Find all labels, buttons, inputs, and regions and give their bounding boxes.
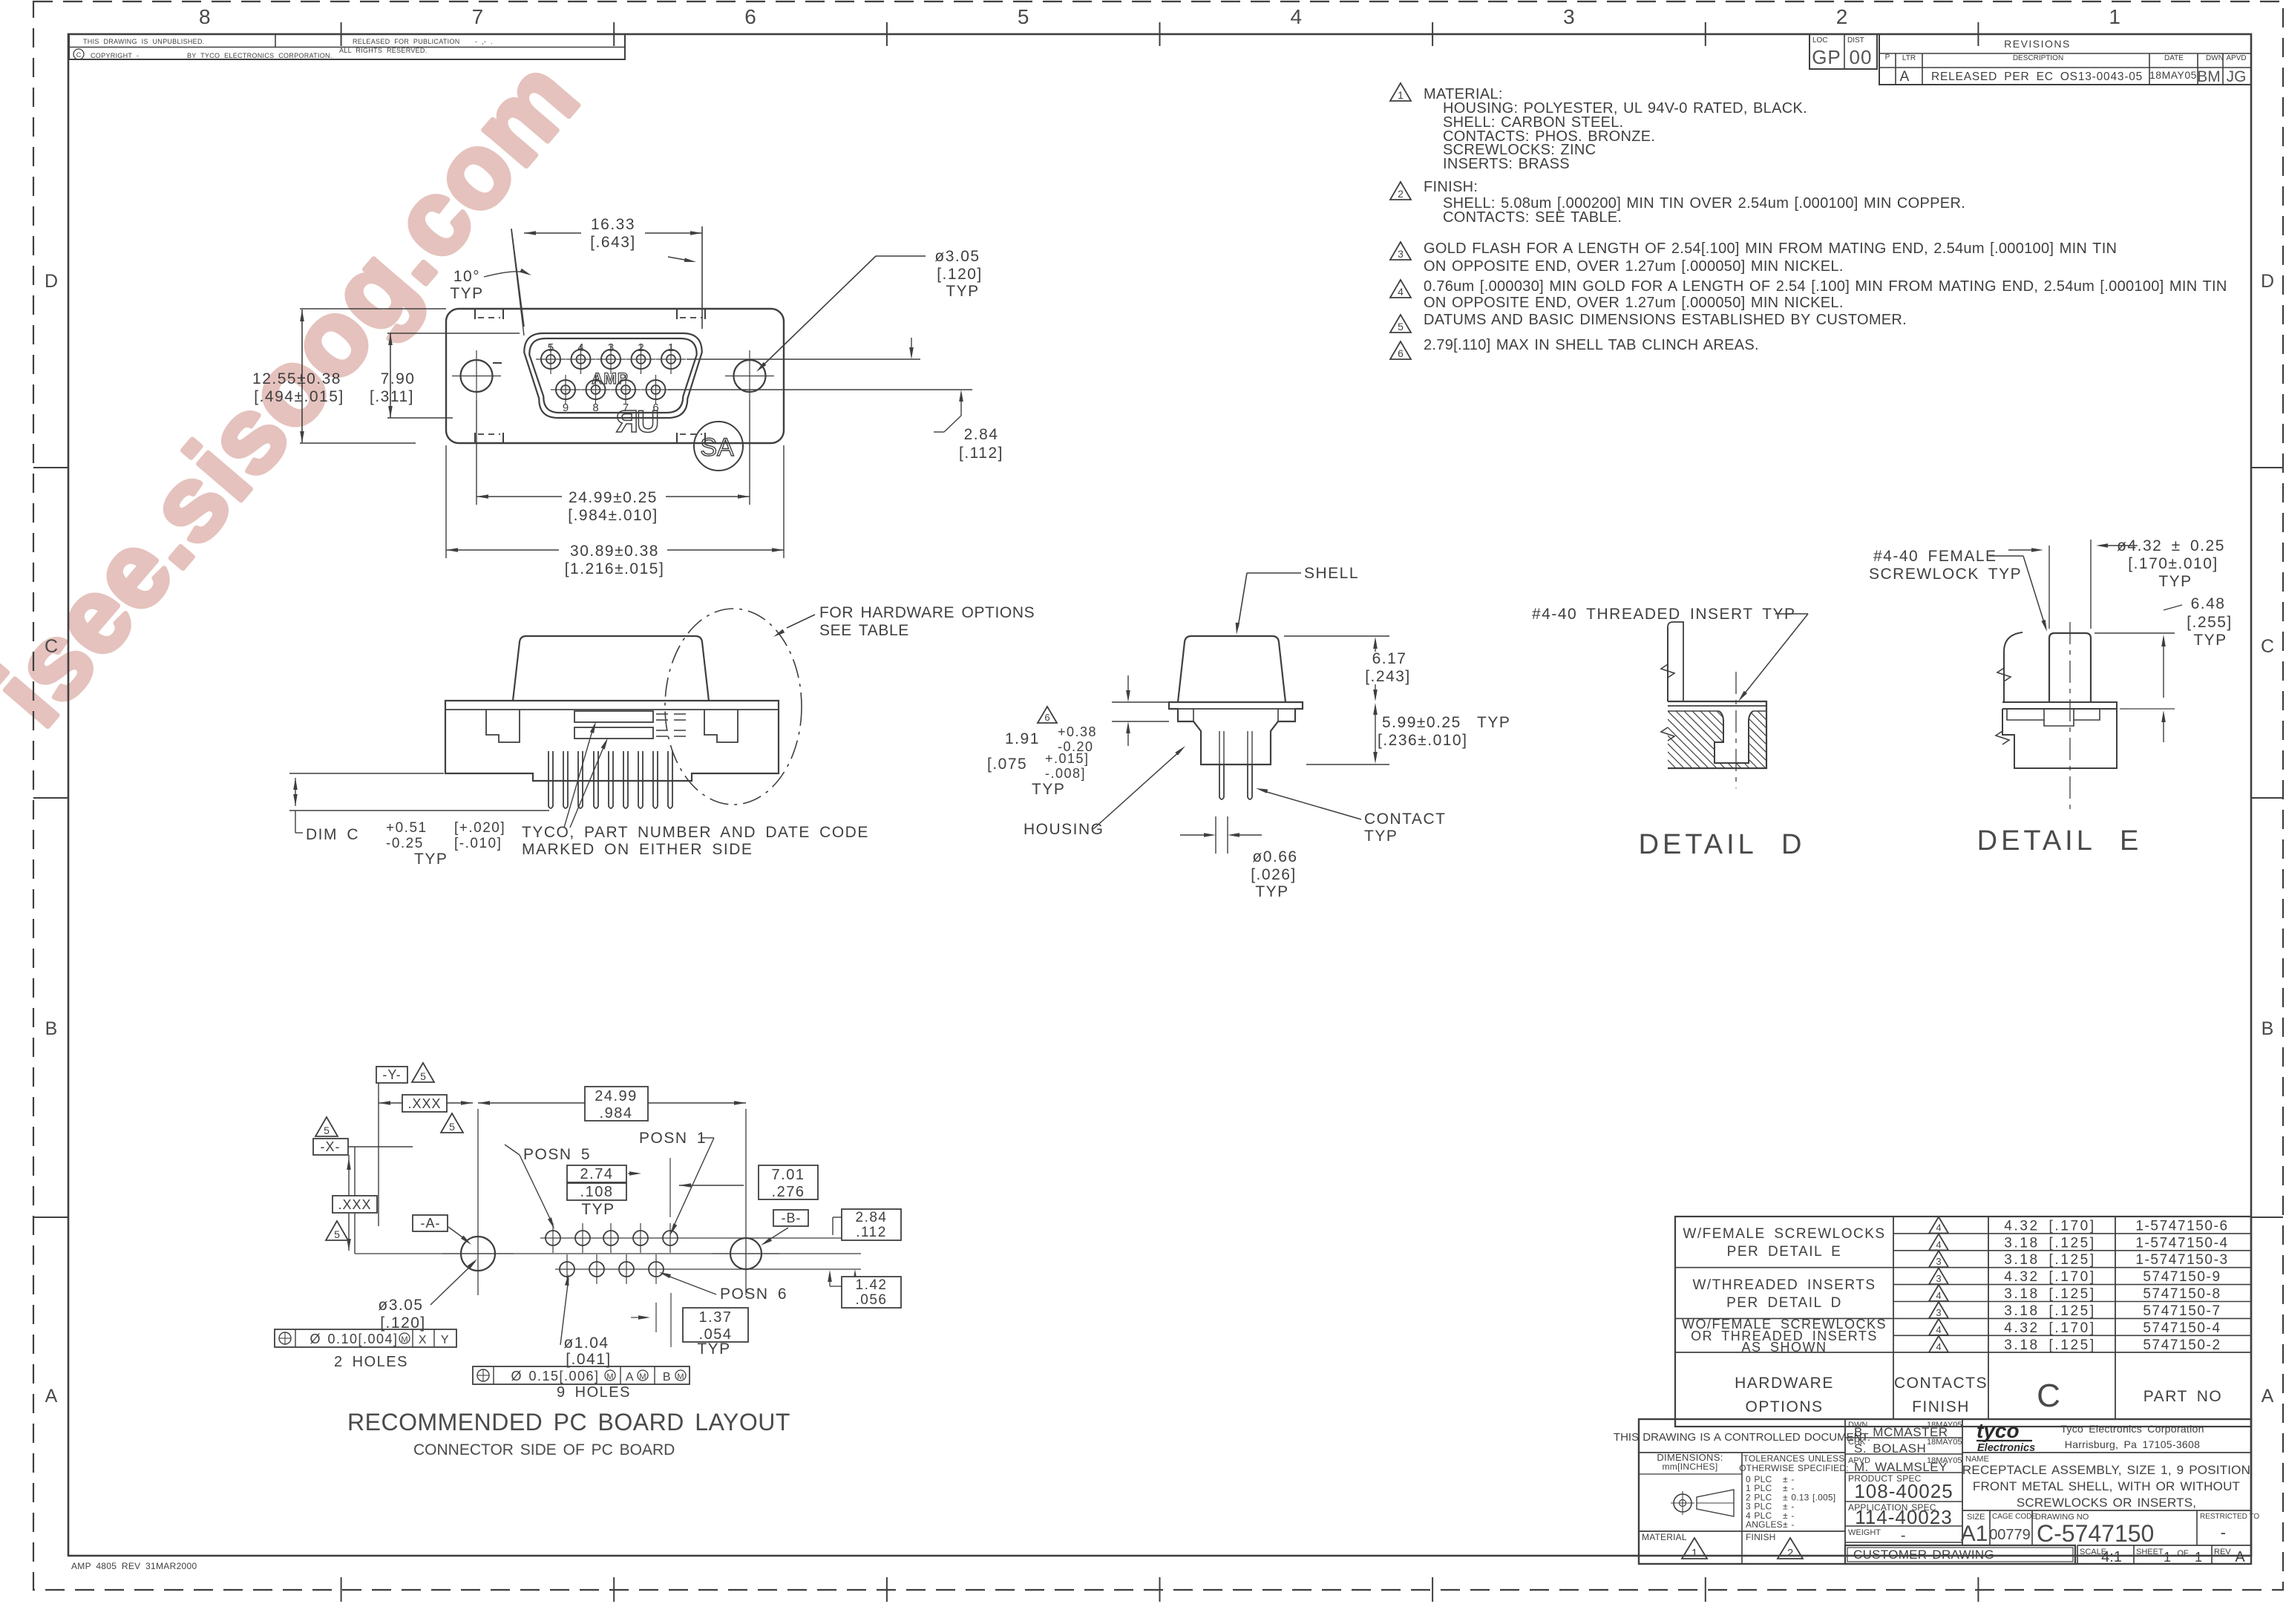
side view flange <box>445 701 779 781</box>
pcb dim2.74 box <box>567 1165 626 1182</box>
svg-text:5747150-2: 5747150-2 <box>2143 1337 2221 1353</box>
svg-text:2.84: 2.84 <box>964 426 999 443</box>
dim 1.91 ext top <box>1112 701 1169 703</box>
side marking plate 2 <box>574 727 653 739</box>
zone tick bottom 4 <box>1159 1577 1161 1602</box>
pcb dim1.37 box <box>683 1308 748 1342</box>
clinch tab bottom <box>676 433 678 443</box>
dim 12.55 ext bottom <box>300 442 416 444</box>
svg-text:ø3.05: ø3.05 <box>934 248 980 265</box>
svg-text:3: 3 <box>1936 1273 1941 1284</box>
pcb dim24.99 line <box>478 1102 746 1104</box>
dim 7.90 ext bottom <box>387 417 453 419</box>
svg-text:18MAY05: 18MAY05 <box>1927 1438 1962 1447</box>
svg-text:POSN 6: POSN 6 <box>720 1286 787 1303</box>
dim 2.84fv elbow <box>944 416 961 432</box>
svg-text:TYP: TYP <box>1477 714 1510 731</box>
svg-text:RESTRICTED TO: RESTRICTED TO <box>2200 1513 2259 1521</box>
zone tick bottom 1 <box>341 1577 342 1602</box>
svg-text:BY TYCO ELECTRONICS CORPORATIO: BY TYCO ELECTRONICS CORPORATION. <box>187 52 333 59</box>
svg-text:-X-: -X- <box>321 1139 341 1154</box>
svg-text:2.74: 2.74 <box>580 1166 614 1182</box>
svg-text:tyco: tyco <box>1976 1419 2020 1442</box>
clinch tab top <box>676 309 678 319</box>
pcb POSN5 leader <box>505 1145 520 1155</box>
pcb top row holes <box>546 1231 560 1245</box>
svg-text:-: - <box>1901 1528 1907 1544</box>
svg-text:8: 8 <box>199 5 211 28</box>
hw tri row1 <box>1929 1217 1948 1234</box>
pcb dimXXX top box <box>402 1095 447 1112</box>
svg-text:Ø 0.15[.006]: Ø 0.15[.006] <box>511 1369 599 1384</box>
hw row line 2 <box>1893 1250 2251 1251</box>
hw tri row3 <box>1929 1251 1948 1267</box>
svg-text:CAGE CODE: CAGE CODE <box>1992 1513 2037 1521</box>
svg-text:[.494±.015]: [.494±.015] <box>254 388 344 405</box>
detailE label leader <box>1989 555 2023 557</box>
contact 5 <box>541 350 560 369</box>
svg-text:M: M <box>401 1335 407 1344</box>
dim 24.99 line <box>476 496 750 497</box>
header table box <box>69 34 625 59</box>
svg-text:SCREWLOCK TYP: SCREWLOCK TYP <box>1869 566 2022 583</box>
svg-text:1.37: 1.37 <box>699 1309 733 1326</box>
zone tick left <box>33 797 68 799</box>
svg-text:SA: SA <box>700 433 734 462</box>
detailE dim arrowr <box>2102 545 2138 546</box>
svg-text:.XXX: .XXX <box>407 1096 441 1111</box>
svg-text:TYP: TYP <box>414 851 448 868</box>
CSA mark <box>694 422 743 471</box>
svg-text:FINISH:: FINISH: <box>1424 179 1478 195</box>
svg-text:Harrisburg, Pa 17105-3608: Harrisburg, Pa 17105-3608 <box>2065 1438 2200 1450</box>
side marking dash 1 <box>656 713 692 715</box>
svg-text:A: A <box>2262 1386 2274 1407</box>
detailE dim arrowl <box>2008 549 2037 551</box>
pcb dim2.84 elbow <box>833 1217 842 1218</box>
side marking plate 1 <box>574 711 653 722</box>
dimC ext bottom <box>289 810 549 811</box>
clinch tab bottom <box>474 433 476 443</box>
zone tick top 4 <box>1159 22 1161 46</box>
svg-text:PER DETAIL D: PER DETAIL D <box>1726 1295 1842 1311</box>
note6 triangle sv <box>1038 707 1057 723</box>
svg-text:5: 5 <box>1018 5 1029 28</box>
svg-text:5747150-4: 5747150-4 <box>2143 1320 2221 1336</box>
tb mid hline <box>1845 1525 1962 1527</box>
dim 24.99 ext right <box>749 401 750 505</box>
dim 1.91 arrows <box>1127 675 1129 698</box>
revisions bottom <box>1879 84 2251 85</box>
svg-text:1-5747150-6: 1-5747150-6 <box>2135 1219 2228 1234</box>
zone tick top 3 <box>886 22 888 46</box>
svg-text:7.01: 7.01 <box>772 1167 805 1183</box>
zone tick bottom 2 <box>613 1577 615 1602</box>
front small tick <box>493 362 502 364</box>
HOUSING leader <box>1093 750 1182 829</box>
svg-text:TYP: TYP <box>697 1340 730 1358</box>
svg-text:C: C <box>2037 1378 2060 1414</box>
svg-text:ø4.32 ± 0.25: ø4.32 ± 0.25 <box>2117 537 2225 554</box>
svg-text:W/FEMALE SCREWLOCKS: W/FEMALE SCREWLOCKS <box>1683 1226 1885 1242</box>
svg-text:[.112]: [.112] <box>959 445 1003 462</box>
svg-text:1: 1 <box>2109 5 2120 28</box>
hw row line 6 <box>1675 1317 2251 1319</box>
svg-text:18MAY05: 18MAY05 <box>1927 1456 1962 1465</box>
svg-text:OF: OF <box>2177 1549 2189 1558</box>
zone tick bottom 3 <box>886 1577 888 1602</box>
pcb dim2.74 box2 <box>567 1183 626 1200</box>
svg-text:Y: Y <box>441 1334 450 1346</box>
dimC elbow <box>295 811 296 833</box>
svg-text:DIM C: DIM C <box>306 826 359 843</box>
pcb POSN6 leader <box>662 1274 716 1294</box>
header copyright symbol <box>73 49 84 59</box>
front D cutout inner <box>529 338 696 413</box>
svg-text:M: M <box>606 1372 613 1381</box>
svg-text:00779: 00779 <box>1989 1527 2031 1543</box>
svg-text:1.91: 1.91 <box>1005 730 1040 747</box>
revisions vline <box>1895 53 1896 85</box>
pcb bottom row holes <box>560 1262 574 1277</box>
note triangle 1 <box>1390 83 1411 101</box>
tb mid hline <box>1845 1437 1962 1438</box>
hw row line 4 <box>1893 1284 2251 1286</box>
tb hline size <box>1962 1510 2251 1511</box>
pcb dim1.42 box <box>842 1277 901 1308</box>
zone tick top 7 <box>1977 22 1979 46</box>
svg-text:4: 4 <box>1398 286 1404 298</box>
front view shell outline <box>446 309 784 443</box>
svg-text:2: 2 <box>1787 1547 1793 1559</box>
tb material triangle <box>1682 1538 1707 1559</box>
svg-text:5747150-9: 5747150-9 <box>2143 1269 2221 1285</box>
hw tri row8 <box>1929 1336 1948 1352</box>
mounting hole right <box>734 360 766 392</box>
dim 12.55 line <box>301 310 303 443</box>
dim 12.55 ext top <box>300 308 446 310</box>
svg-text:INSERTS: BRASS: INSERTS: BRASS <box>1443 156 1570 172</box>
zone tick top 1 <box>341 22 342 46</box>
dim dia3.05 leader <box>876 255 926 257</box>
svg-text:M: M <box>639 1372 646 1381</box>
pcb dimXXX top line <box>379 1102 473 1104</box>
contact 9 <box>556 380 575 399</box>
tb size vlines <box>1989 1510 1991 1545</box>
svg-text:-B-: -B- <box>782 1211 802 1225</box>
dim 5.99 ext <box>1306 764 1389 765</box>
dim 5.99 line <box>1375 711 1376 756</box>
contact 3 <box>601 350 620 369</box>
svg-text:1: 1 <box>1691 1547 1697 1559</box>
hw tri row6 <box>1929 1302 1948 1318</box>
svg-text:W/THREADED INSERTS: W/THREADED INSERTS <box>1692 1277 1876 1293</box>
hw table outline <box>1675 1217 2251 1427</box>
front D cutout outer <box>524 333 701 418</box>
detailD centerline <box>1735 672 1737 788</box>
revisions hline1 <box>1879 53 2251 54</box>
tb customer drawing inner <box>1847 1548 2073 1562</box>
zone tick right <box>2251 797 2283 799</box>
svg-text:B: B <box>2262 1018 2274 1039</box>
dim 7.90 line <box>390 333 391 418</box>
svg-text:A: A <box>1900 69 1910 85</box>
hw row line 5 <box>1893 1301 2251 1303</box>
svg-text:24.99: 24.99 <box>595 1088 638 1104</box>
svg-text:3.18 [.125]: 3.18 [.125] <box>2004 1286 2095 1302</box>
svg-text:ø1.04: ø1.04 <box>563 1335 609 1352</box>
svg-text:00: 00 <box>1850 46 1873 68</box>
svg-text:[.984±.010]: [.984±.010] <box>568 507 658 524</box>
loc dist box <box>1810 34 1877 69</box>
svg-text:[.041]: [.041] <box>566 1351 612 1368</box>
svg-text:M: M <box>677 1372 684 1381</box>
svg-text:TYP: TYP <box>1032 781 1065 798</box>
svg-text:1-5747150-4: 1-5747150-4 <box>2135 1235 2228 1251</box>
pcb datumB leader <box>766 1228 788 1242</box>
detailE breaks <box>1997 668 2011 681</box>
svg-text:ø3.05: ø3.05 <box>378 1297 423 1314</box>
svg-text:3.18 [.125]: 3.18 [.125] <box>2004 1235 2095 1251</box>
note triangle 2 <box>1390 182 1411 200</box>
svg-text:1: 1 <box>1398 89 1404 101</box>
svg-text:ø0.66: ø0.66 <box>1252 848 1297 865</box>
svg-text:4: 4 <box>577 341 583 354</box>
svg-text:DETAIL E: DETAIL E <box>1977 825 2143 857</box>
svg-text:OPTIONS: OPTIONS <box>1745 1398 1823 1415</box>
zone tick left <box>33 467 68 468</box>
svg-text:4.32 [.170]: 4.32 [.170] <box>2004 1219 2095 1234</box>
svg-text:7.90: 7.90 <box>381 370 416 387</box>
svg-text:3: 3 <box>1563 5 1575 28</box>
svg-text:mm[INCHES]: mm[INCHES] <box>1663 1461 1718 1472</box>
side pins <box>548 751 553 808</box>
tb finish triangle <box>1778 1538 1803 1559</box>
svg-text:B: B <box>663 1371 672 1384</box>
contact 8 <box>586 380 606 399</box>
svg-text:DETAIL D: DETAIL D <box>1639 829 1806 860</box>
tb hline dims <box>1639 1473 1742 1475</box>
svg-text:FRONT METAL SHELL, WITH OR WIT: FRONT METAL SHELL, WITH OR WITHOUT <box>1973 1479 2240 1493</box>
detailE flange <box>2002 632 2117 709</box>
dim 6.17 ext <box>1284 635 1389 637</box>
svg-text:C: C <box>45 636 58 657</box>
svg-text:FINISH: FINISH <box>1912 1398 1970 1415</box>
clinch tab top <box>474 309 476 319</box>
svg-text:OTHERWISE SPECIFIED:: OTHERWISE SPECIFIED: <box>1739 1463 1848 1473</box>
pcb tri5 b <box>441 1113 463 1133</box>
tb customer drawing outer <box>1845 1545 2075 1564</box>
pcb datumA leader <box>448 1227 468 1241</box>
svg-text:AMP: AMP <box>592 370 629 387</box>
hw tri row2 <box>1929 1234 1948 1250</box>
svg-text:C: C <box>76 51 82 59</box>
svg-text:RELEASED PER EC OS13-0043-05: RELEASED PER EC OS13-0043-05 <box>1931 71 2143 83</box>
dim 2.84fv ext2 <box>668 389 972 390</box>
contact 7 <box>616 380 635 399</box>
svg-text:16.33: 16.33 <box>591 216 635 233</box>
svg-text:5747150-7: 5747150-7 <box>2143 1303 2221 1319</box>
svg-text:TYCO, PART NUMBER AND DATE COD: TYCO, PART NUMBER AND DATE CODE <box>522 824 869 841</box>
dim dia0.66 ticks <box>1215 816 1216 854</box>
svg-text:TYP: TYP <box>946 283 979 300</box>
slant construction line <box>511 230 524 335</box>
svg-text:2: 2 <box>1836 5 1848 28</box>
detailD break1 <box>1661 664 1674 678</box>
pcb datumA box <box>413 1215 448 1231</box>
svg-text:[.311]: [.311] <box>370 388 414 405</box>
svg-text:FOR HARDWARE OPTIONS: FOR HARDWARE OPTIONS <box>819 604 1035 621</box>
svg-text:1: 1 <box>668 341 674 354</box>
svg-text:FINISH: FINISH <box>1746 1532 1776 1542</box>
svg-text:5: 5 <box>1398 321 1404 333</box>
svg-text:10°: 10° <box>453 268 480 285</box>
svg-text:TYP: TYP <box>1364 828 1398 845</box>
pcb dimXXX left box <box>333 1196 377 1213</box>
pcb fcf1 <box>275 1329 456 1347</box>
section notch l <box>1193 709 1194 721</box>
svg-text:[.243]: [.243] <box>1365 668 1411 685</box>
svg-text:3.18 [.125]: 3.18 [.125] <box>2004 1337 2095 1353</box>
revisions vline <box>2149 53 2150 85</box>
svg-text:PART NO: PART NO <box>2143 1388 2223 1405</box>
svg-text:C-5747150: C-5747150 <box>2037 1520 2154 1547</box>
svg-text:9: 9 <box>563 402 569 414</box>
svg-text:8: 8 <box>592 402 598 414</box>
detailD top lines <box>1668 705 1766 707</box>
detailE arrow bottom <box>2163 716 2164 742</box>
hw left col extend <box>1674 1419 1676 1427</box>
svg-text:18MAY05: 18MAY05 <box>2149 69 2197 81</box>
svg-text:[.075: [.075 <box>987 756 1027 773</box>
dim 2.84fv arrows <box>911 338 912 355</box>
svg-text:HOUSING: HOUSING <box>1024 821 1104 838</box>
dim 1.91 ext bot <box>1112 721 1169 722</box>
hw vline col1 <box>1893 1217 1894 1419</box>
pcb datumB box <box>773 1210 808 1226</box>
svg-text:TYP: TYP <box>581 1201 615 1218</box>
dim 16.33 ext right <box>701 226 703 329</box>
svg-text:X: X <box>419 1334 428 1346</box>
revisions table box <box>1879 34 2251 85</box>
header table vline <box>275 34 276 48</box>
svg-text:ANGLES: ANGLES <box>1746 1519 1783 1530</box>
detailD hatching <box>1586 711 1839 768</box>
detailE cyl left <box>2048 638 2050 702</box>
dim 10deg arrow2 <box>668 257 689 261</box>
svg-text:CONTACT: CONTACT <box>1364 811 1446 828</box>
hardware options ellipse <box>665 609 802 805</box>
svg-text:-.008]: -.008] <box>1045 766 1086 781</box>
tb vline dim-tol <box>1741 1453 1743 1564</box>
zone tick right <box>2251 1217 2283 1218</box>
detailD break2 <box>1661 727 1674 741</box>
note triangle 4 <box>1390 280 1411 298</box>
tb mid hline <box>1845 1542 1962 1543</box>
dim 6.17 text <box>1360 652 1418 684</box>
svg-text:.276: .276 <box>772 1184 805 1200</box>
svg-text:#4-40 THREADED INSERT TYP: #4-40 THREADED INSERT TYP <box>1532 606 1796 623</box>
hw vline col2 <box>1988 1217 1989 1419</box>
svg-text:WEIGHT: WEIGHT <box>1848 1528 1881 1537</box>
svg-text:6: 6 <box>744 5 756 28</box>
svg-text:4.32 [.170]: 4.32 [.170] <box>2004 1320 2095 1336</box>
detailD flange vline <box>1667 627 1668 701</box>
contact 4 <box>571 350 591 369</box>
svg-text:THIS DRAWING IS A CONTROLLED D: THIS DRAWING IS A CONTROLLED DOCUMENT. <box>1614 1431 1870 1444</box>
svg-text:SCREWLOCKS OR INSERTS,: SCREWLOCKS OR INSERTS, <box>2017 1496 2196 1510</box>
svg-text:2 HOLES: 2 HOLES <box>334 1354 408 1370</box>
svg-text:AMP 4805 REV 31MAR2000: AMP 4805 REV 31MAR2000 <box>71 1561 197 1571</box>
pcb dim7.01 line <box>679 1185 744 1186</box>
svg-text:THIS DRAWING IS UNPUBLISHED.: THIS DRAWING IS UNPUBLISHED. <box>83 38 205 45</box>
svg-text:RECEPTACLE ASSEMBLY, SIZE 1, 9: RECEPTACLE ASSEMBLY, SIZE 1, 9 POSITION <box>1962 1463 2250 1477</box>
svg-text:MATERIAL: MATERIAL <box>1642 1532 1687 1542</box>
pcb dim24.99 box <box>585 1087 648 1121</box>
SHELL leader <box>1247 572 1301 574</box>
note triangle 6 <box>1390 341 1411 359</box>
zone tick top 6 <box>1705 22 1706 46</box>
svg-text:D: D <box>45 271 58 292</box>
svg-text:12.55±0.38: 12.55±0.38 <box>252 370 341 387</box>
tb hline name <box>1962 1452 2251 1453</box>
section flange line <box>1178 708 1295 710</box>
svg-text:SHELL: SHELL <box>1304 565 1359 582</box>
svg-text:COPYRIGHT -: COPYRIGHT - <box>91 52 139 59</box>
svg-text:TOLERANCES UNLESS: TOLERANCES UNLESS <box>1743 1453 1845 1464</box>
side notch right <box>704 710 738 742</box>
dim 30.89 line <box>446 549 784 551</box>
svg-text:SHEET: SHEET <box>2136 1548 2164 1556</box>
svg-text:108-40025: 108-40025 <box>1854 1480 1953 1502</box>
pcb hole B <box>730 1238 762 1269</box>
svg-text:[+.020]: [+.020] <box>454 820 505 836</box>
revisions hline2 <box>1879 67 2251 68</box>
svg-text:JG: JG <box>2227 68 2247 85</box>
pcb dim1.37 arrows <box>631 1317 643 1318</box>
pcb dia1.04 leader <box>560 1278 569 1345</box>
pcb dim2.74 arrow <box>628 1173 635 1174</box>
svg-text:3: 3 <box>1936 1256 1941 1267</box>
hw vline col3 <box>2115 1217 2116 1419</box>
svg-text:- ,- .: - ,- . <box>475 38 493 45</box>
svg-text:+0.51: +0.51 <box>386 820 428 836</box>
svg-text:+0.38: +0.38 <box>1058 724 1097 739</box>
svg-text:ON OPPOSITE END, OVER 1.27um [: ON OPPOSITE END, OVER 1.27um [.000050] M… <box>1424 295 1844 311</box>
svg-text:SEE TABLE: SEE TABLE <box>819 622 909 639</box>
pcb datumY box <box>376 1067 407 1083</box>
pcb tri5 a <box>412 1063 434 1082</box>
svg-text:DIST: DIST <box>1847 36 1864 45</box>
svg-text:5: 5 <box>334 1228 340 1240</box>
tb position symbol <box>1674 1494 1691 1512</box>
svg-text:.108: .108 <box>580 1184 614 1200</box>
svg-text:[.643]: [.643] <box>590 234 636 251</box>
svg-text:DATE: DATE <box>2164 54 2184 62</box>
side shell trapezoid <box>513 636 709 701</box>
svg-text:POSN 1: POSN 1 <box>639 1130 707 1147</box>
tb vline mid-right <box>1962 1419 1963 1545</box>
svg-text:4: 4 <box>1936 1239 1941 1250</box>
svg-text:18MAY05: 18MAY05 <box>1927 1421 1962 1430</box>
svg-text:A1: A1 <box>1961 1522 1988 1546</box>
svg-text:TYP: TYP <box>1255 883 1288 900</box>
section pins <box>1219 764 1224 799</box>
pcb dia3.05 leader <box>430 1262 475 1305</box>
svg-text:9 HOLES: 9 HOLES <box>557 1384 631 1401</box>
svg-text:5: 5 <box>420 1070 426 1082</box>
svg-text:3: 3 <box>608 341 614 354</box>
